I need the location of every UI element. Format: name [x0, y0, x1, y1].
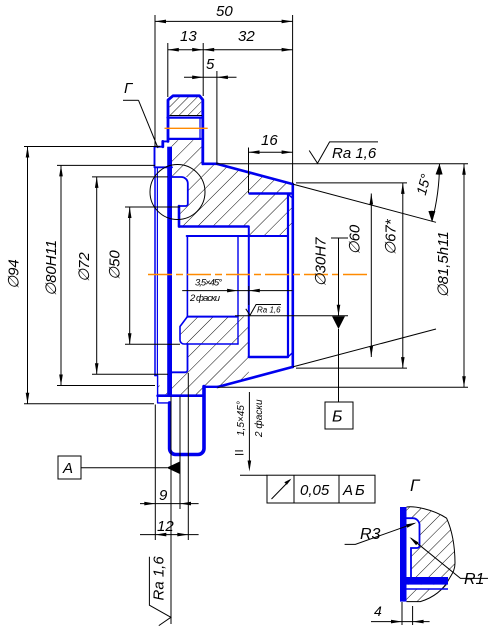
svg-text:0,05: 0,05: [300, 482, 330, 499]
svg-text:А: А: [342, 482, 353, 499]
svg-text:12: 12: [157, 518, 174, 535]
svg-text:32: 32: [238, 28, 255, 45]
svg-text:Ra 1,6: Ra 1,6: [332, 145, 377, 162]
svg-text:5: 5: [206, 56, 215, 73]
svg-text:R3: R3: [360, 526, 381, 543]
svg-text:Б: Б: [332, 409, 342, 426]
svg-text:∅94: ∅94: [6, 259, 23, 289]
svg-text:13: 13: [180, 28, 197, 45]
svg-text:∅30H7: ∅30H7: [313, 237, 330, 287]
svg-text:R1: R1: [464, 571, 484, 588]
svg-text:1,5×45°: 1,5×45°: [236, 401, 247, 436]
svg-text:4: 4: [374, 603, 382, 619]
svg-text:Б: Б: [355, 482, 365, 499]
svg-text:∅72: ∅72: [76, 252, 93, 282]
svg-text:∅67*: ∅67*: [383, 218, 400, 255]
svg-text:2 фаски: 2 фаски: [189, 293, 221, 304]
svg-text:9: 9: [159, 487, 168, 504]
svg-text:16: 16: [261, 132, 278, 149]
svg-text:50: 50: [216, 3, 233, 20]
svg-text:Ra 1,6: Ra 1,6: [151, 556, 168, 601]
svg-text:Ra 1,6: Ra 1,6: [257, 306, 281, 315]
svg-text:∅60: ∅60: [347, 224, 364, 254]
svg-text:А: А: [62, 460, 73, 477]
svg-text:∅81,5h11: ∅81,5h11: [435, 231, 452, 297]
svg-text:3,5×45°: 3,5×45°: [195, 278, 222, 289]
svg-text:∅50: ∅50: [107, 250, 124, 280]
svg-text:∅80H11: ∅80H11: [43, 240, 60, 296]
svg-text:2 фаски: 2 фаски: [253, 399, 265, 438]
